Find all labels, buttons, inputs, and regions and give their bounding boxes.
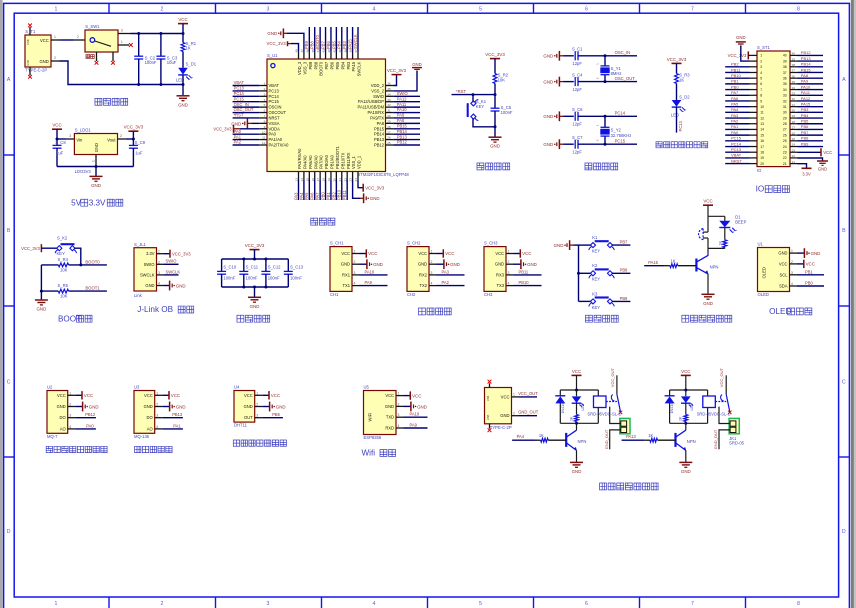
no-ERC cross SW1 unconnected pin	[129, 43, 133, 47]
mcu right pin 26 PB13	[386, 139, 394, 141]
ground symbol relay	[570, 461, 583, 463]
svg-text:PB0/A0: PB0/A0	[324, 154, 329, 169]
svg-text:S_JL1: S_JL1	[134, 242, 147, 247]
svg-text:7: 7	[691, 601, 694, 607]
junction RST-K1	[472, 93, 475, 96]
svg-text:PA9: PA9	[801, 79, 809, 84]
diode 1N4148 flyback	[669, 390, 671, 396]
svg-text:PB6: PB6	[330, 61, 335, 69]
svg-text:VCC: VCC	[385, 393, 394, 398]
wire and rotated net label PB8	[314, 27, 316, 51]
power port VCC S_CH1 pin1	[360, 253, 366, 255]
svg-text:VCC_3V3: VCC_3V3	[365, 185, 385, 190]
svg-text:VDDA: VDDA	[269, 126, 281, 131]
svg-text:PA1/A0: PA1/A0	[269, 137, 283, 142]
svg-text:PB12: PB12	[801, 50, 812, 55]
mcu bottom pin 22 PB11/RX	[346, 172, 348, 181]
svg-text:OSC_OUT: OSC_OUT	[615, 76, 636, 81]
LED in alarm	[724, 216, 726, 221]
svg-text:S_C6: S_C6	[572, 107, 583, 112]
mcu right pin 31 PA10/RX	[386, 112, 394, 114]
wire C6 to crystal	[578, 115, 637, 117]
wire and net label PA15 right	[798, 106, 824, 108]
ST1 pin 39	[790, 60, 798, 62]
wire net PA9 U5 pin4	[404, 427, 428, 429]
mcu right pin 36 VDD_2	[386, 85, 394, 87]
svg-text:PA3: PA3	[293, 192, 298, 200]
wire K2 to BOOT0	[74, 248, 81, 265]
svg-text:PA7: PA7	[315, 192, 320, 200]
relay contact dashed link	[715, 401, 726, 403]
mcu top pin 41 PB5	[335, 51, 337, 59]
svg-text:KEY: KEY	[57, 251, 66, 256]
push button K2	[579, 272, 592, 274]
svg-text:GND: GND	[527, 262, 537, 267]
svg-text:PB13: PB13	[374, 137, 385, 142]
no-ERC cross T2 top	[488, 380, 492, 384]
capacitor C4	[574, 77, 576, 86]
svg-text:PC14: PC14	[234, 91, 245, 96]
ground U4 pin2	[262, 406, 269, 408]
ST1 pin 7	[750, 89, 758, 91]
svg-text:14: 14	[760, 128, 764, 132]
svg-text:B: B	[7, 228, 11, 234]
svg-text:VCC_OUT: VCC_OUT	[719, 368, 724, 388]
ST1 pin 20	[750, 163, 758, 165]
svg-text:3.3V: 3.3V	[146, 251, 155, 256]
wire to ground filter	[254, 287, 256, 297]
wire left GND rail	[40, 265, 42, 300]
power port VCC U2 pin1	[75, 394, 81, 396]
svg-text:GND: GND	[417, 404, 427, 409]
svg-text:MQ-135: MQ-135	[134, 434, 150, 439]
svg-text:SDA: SDA	[779, 284, 788, 289]
wire net PA1 U3 pin4	[162, 428, 183, 430]
ground S_CH2 pin2	[437, 263, 444, 265]
svg-text:1: 1	[256, 391, 258, 395]
ST1 pin 15	[750, 134, 758, 136]
wire to ground LDO	[95, 167, 97, 177]
wire and net label PC15 left	[725, 140, 749, 142]
svg-text:PB13: PB13	[172, 412, 183, 417]
T2 pin 1 VCC_OUT	[512, 396, 520, 398]
svg-text:VBAT: VBAT	[234, 80, 245, 85]
ST1 pin 17	[750, 146, 758, 148]
LDO pin 3	[67, 138, 75, 140]
svg-text:PA15: PA15	[351, 61, 356, 71]
ST1 pin 38	[790, 66, 798, 68]
LED D2	[672, 100, 682, 107]
wire C1 to crystal	[578, 55, 637, 57]
svg-text:S_R5: S_R5	[58, 283, 69, 288]
svg-text:3: 3	[760, 65, 762, 69]
svg-text:GND: GND	[418, 262, 427, 267]
caption run indicator	[656, 142, 662, 148]
svg-text:PB10: PB10	[337, 189, 342, 200]
svg-text:KEY: KEY	[592, 277, 601, 282]
svg-text:1K: 1K	[671, 259, 676, 264]
svg-text:33: 33	[792, 91, 796, 95]
svg-text:NPN: NPN	[710, 264, 719, 269]
ST1 pin 10	[750, 106, 758, 108]
svg-text:VCC: VCC	[572, 369, 581, 374]
power port 3.3V ST1 pin21	[798, 164, 807, 169]
svg-text:VCC: VCC	[341, 251, 350, 256]
svg-text:VCC: VCC	[681, 369, 690, 374]
ground symbol alarm	[702, 293, 715, 295]
relay contact cross	[619, 411, 622, 414]
wire and net label PB3 right	[798, 111, 824, 113]
svg-text:TXD: TXD	[386, 415, 394, 420]
svg-text:PB14: PB14	[801, 62, 812, 67]
svg-text:NPN: NPN	[687, 439, 696, 444]
ground U2 pin2	[75, 406, 82, 408]
svg-text:NRST: NRST	[269, 115, 281, 120]
svg-text:1K: 1K	[679, 78, 684, 83]
mcu top pin 39 PB3	[346, 51, 348, 59]
svg-text:GND: GND	[57, 404, 66, 409]
svg-text:VCC: VCC	[84, 393, 93, 398]
connector JK terminal block	[620, 418, 630, 433]
svg-text:2: 2	[156, 403, 158, 407]
relay bottom rail	[670, 422, 708, 424]
svg-text:PA10: PA10	[397, 107, 407, 112]
svg-text:1K: 1K	[186, 46, 191, 51]
wire and net label PA2 left	[725, 123, 749, 125]
caption reset circuit	[477, 163, 484, 170]
base input resistor 1K relay	[512, 439, 535, 441]
svg-text:PC14: PC14	[269, 94, 280, 99]
svg-text:PB9: PB9	[801, 141, 809, 146]
ST1 pin 8	[750, 94, 758, 96]
power port VCC_3V3 jlink	[164, 253, 170, 255]
relay coil	[707, 390, 709, 396]
wire and net label PB6 right	[798, 128, 824, 130]
SW1 pin 3 output	[118, 33, 131, 35]
svg-text:PA12/USB/DP: PA12/USB/DP	[358, 99, 384, 104]
wire and net label PB7 right	[798, 134, 824, 136]
svg-text:VCC: VCC	[703, 199, 712, 204]
wire and net label VBAT	[233, 85, 260, 87]
svg-text:PB11: PB11	[519, 269, 529, 274]
svg-text:GND: GND	[144, 404, 153, 409]
svg-text:S_ST1: S_ST1	[757, 45, 770, 50]
power port VCC U5 pin1	[404, 395, 410, 397]
svg-text:*RST: *RST	[234, 113, 244, 118]
svg-text:22: 22	[792, 154, 796, 158]
svg-text:GND: GND	[244, 404, 253, 409]
alarm top rail	[708, 215, 725, 217]
svg-text:PB11: PB11	[342, 190, 347, 200]
svg-text:BEEP: BEEP	[735, 220, 746, 225]
svg-text:34: 34	[792, 86, 796, 90]
svg-text:S_C12: S_C12	[268, 265, 281, 270]
filter top rail	[222, 258, 289, 260]
svg-text:VCC_3V3: VCC_3V3	[387, 68, 407, 73]
svg-text:PC15: PC15	[615, 139, 626, 144]
ST1 pin 26	[790, 134, 798, 136]
svg-text:10: 10	[262, 130, 266, 134]
transistor NPN relay	[565, 433, 567, 447]
wire net PB8	[612, 272, 630, 274]
svg-text:PA9: PA9	[410, 423, 418, 428]
wire and net label PB9 right	[798, 146, 824, 148]
mcu left pin 3 PC14	[259, 95, 267, 97]
capacitor C5	[491, 107, 500, 109]
svg-text:PA9: PA9	[365, 280, 373, 285]
svg-text:VCC_3V3: VCC_3V3	[667, 57, 687, 62]
ground U5 pin2	[404, 405, 411, 407]
svg-text:SWCLK: SWCLK	[140, 272, 155, 277]
svg-text:PA3: PA3	[731, 113, 739, 118]
wire to capacitor C7	[564, 143, 574, 145]
svg-text:1: 1	[508, 250, 510, 254]
ST1 pin 40	[790, 54, 798, 56]
svg-text:NRST: NRST	[731, 158, 742, 163]
ground at mcu VSS_3	[287, 33, 304, 51]
wire net PA3 S_CH2 pin3	[437, 274, 465, 276]
mcu bottom pin 14 PA4/A0	[303, 172, 305, 181]
svg-text:GND: GND	[554, 243, 564, 248]
svg-text:VSS_3: VSS_3	[303, 61, 308, 74]
svg-text:S_LDO1: S_LDO1	[75, 128, 92, 133]
svg-text:GND: GND	[412, 62, 422, 67]
svg-text:4: 4	[156, 425, 158, 429]
ground S_CH1 pin2	[360, 263, 367, 265]
mcu left pin 5 OSCIN	[259, 106, 267, 108]
svg-text:C: C	[7, 380, 11, 386]
wire net *RST	[452, 94, 496, 96]
svg-text:VCC: VCC	[501, 394, 510, 399]
wire and net label PA11 right	[798, 94, 824, 96]
SW1 bottom pin b	[112, 52, 114, 61]
ruler dividers left and right	[4, 154, 15, 156]
svg-text:32: 32	[783, 99, 787, 103]
svg-text:1: 1	[760, 54, 762, 58]
wire and net label PA11	[393, 106, 420, 108]
ground symbol filter	[248, 296, 261, 298]
svg-text:PC15: PC15	[269, 99, 280, 104]
junction VCC rail	[182, 32, 185, 35]
svg-text:PB5: PB5	[335, 61, 340, 69]
svg-text:PA5: PA5	[731, 101, 739, 106]
svg-text:KEY: KEY	[476, 104, 485, 109]
wire and net label PA12 right	[798, 100, 824, 102]
ST1 pin 1	[750, 54, 758, 56]
svg-text:K1: K1	[592, 235, 598, 240]
svg-text:2: 2	[161, 601, 164, 607]
push button K1	[467, 103, 469, 117]
svg-text:16: 16	[760, 139, 764, 143]
wire and net label PC13 left	[725, 151, 749, 153]
svg-text:LED: LED	[581, 403, 585, 410]
svg-text:PA3/RX/A0: PA3/RX/A0	[297, 148, 302, 169]
svg-text:RX1: RX1	[342, 272, 351, 277]
svg-text:GND: GND	[267, 31, 277, 36]
svg-text:26: 26	[387, 136, 391, 140]
wire C7 to crystal	[578, 143, 637, 145]
svg-text:TYPE-C-2P: TYPE-C-2P	[25, 68, 47, 73]
svg-text:10K: 10K	[60, 294, 68, 299]
svg-text:PA0: PA0	[731, 130, 739, 135]
svg-text:1: 1	[158, 250, 160, 254]
svg-text:2: 2	[158, 260, 160, 264]
svg-text:RX2: RX2	[419, 272, 428, 277]
svg-text:29: 29	[387, 119, 391, 123]
wire net PB1 U1 pin3	[797, 274, 824, 276]
svg-text:PA9/TX: PA9/TX	[370, 115, 384, 120]
svg-text:40: 40	[783, 54, 787, 58]
wire and net label PA1	[233, 139, 260, 141]
svg-text:12: 12	[262, 141, 266, 145]
junction R5 rail	[40, 290, 43, 293]
svg-text:PA2: PA2	[234, 140, 242, 145]
svg-text:34: 34	[387, 92, 391, 96]
wire BOOT0	[69, 264, 107, 266]
diode 1N4148 flyback	[559, 390, 561, 396]
svg-text:SCL: SCL	[780, 272, 789, 277]
LDO GND pin 1	[95, 155, 97, 167]
switch SW1 body	[85, 30, 118, 52]
svg-text:OSCOUT: OSCOUT	[269, 110, 287, 115]
window edge left grey strip	[0, 0, 3, 608]
svg-text:39: 39	[783, 59, 787, 63]
svg-text:VCC_3V3: VCC_3V3	[266, 41, 286, 46]
wire and net label PB15	[393, 128, 420, 130]
svg-text:PB4: PB4	[337, 41, 342, 49]
svg-text:4: 4	[431, 282, 433, 286]
T2 top pin	[489, 383, 491, 387]
svg-text:PA10/RX: PA10/RX	[367, 110, 384, 115]
keys left rail	[578, 245, 580, 301]
svg-text:VCC_3V3: VCC_3V3	[124, 125, 144, 130]
ST1 pin 25	[790, 140, 798, 142]
connector JK terminal block	[729, 418, 739, 433]
svg-text:1: 1	[513, 393, 515, 397]
svg-text:S_C10: S_C10	[223, 265, 236, 270]
svg-text:GND: GND	[818, 167, 827, 172]
svg-text:OUT: OUT	[244, 415, 253, 420]
wire and net label PA6 left	[725, 100, 749, 102]
ST1 pin 28	[790, 123, 798, 125]
svg-text:S_D2: S_D2	[679, 95, 690, 100]
svg-text:6: 6	[760, 82, 762, 86]
svg-text:3: 3	[256, 414, 258, 418]
svg-text:STM32F103C8T6_LQFP48: STM32F103C8T6_LQFP48	[358, 172, 410, 177]
wire to capacitor C6	[564, 115, 574, 117]
svg-text:PA9: PA9	[397, 113, 405, 118]
svg-text:SWCLK: SWCLK	[357, 62, 362, 77]
caption power circuit	[95, 98, 102, 105]
svg-text:BOOT0: BOOT0	[85, 259, 100, 264]
wire and net label PB12	[393, 144, 420, 146]
svg-text:12pF: 12pF	[572, 149, 582, 154]
resistor R4	[58, 263, 68, 267]
power port VCC U4 pin1	[262, 394, 268, 396]
svg-text:1: 1	[121, 40, 123, 44]
alarm bottom rail	[708, 247, 725, 249]
svg-text:PB2: PB2	[331, 192, 336, 200]
svg-text:PB1: PB1	[805, 269, 813, 274]
svg-text:7: 7	[264, 114, 266, 118]
svg-text:2: 2	[54, 56, 56, 60]
capacitor C2	[138, 34, 140, 57]
svg-text:100nF: 100nF	[246, 275, 258, 280]
ST1 pin 30	[790, 111, 798, 113]
svg-text:PA8: PA8	[397, 118, 405, 123]
svg-text:PB2: PB2	[731, 62, 739, 67]
mcu left pin 1 VBAT	[259, 85, 267, 87]
svg-text:2: 2	[256, 403, 258, 407]
svg-text:19: 19	[760, 156, 764, 160]
wire and net label PC15	[233, 101, 260, 103]
module U5 body	[364, 391, 397, 435]
svg-text:GND: GND	[736, 35, 746, 40]
window edge right grey strip	[851, 0, 856, 608]
svg-text:VCC: VCC	[412, 393, 421, 398]
mcu top pin 45 PB8	[314, 51, 316, 59]
LED D1	[178, 68, 188, 75]
wire and rotated net label PB11	[346, 180, 348, 200]
svg-text:D: D	[842, 529, 846, 535]
svg-text:1K: 1K	[648, 433, 653, 438]
svg-text:PA8: PA8	[801, 73, 809, 78]
svg-text:OSC_IN: OSC_IN	[615, 50, 631, 55]
svg-text:U1: U1	[758, 242, 764, 247]
ground U3 pin2	[162, 406, 169, 408]
wire net PB10 S_CH3 pin4	[514, 285, 542, 287]
ground at mcu VSS_2	[393, 71, 417, 91]
wire and rotated net label PA6	[314, 180, 316, 200]
wire net PA9 S_CH1 pin4	[360, 285, 388, 287]
wire and rotated net label PB6	[330, 27, 332, 51]
svg-text:27: 27	[783, 128, 787, 132]
ST1 pin 34	[790, 89, 798, 91]
ST1 pin 24	[790, 146, 798, 148]
svg-text:PA1: PA1	[173, 423, 181, 428]
svg-text:33: 33	[783, 94, 787, 98]
svg-text:31: 31	[783, 105, 787, 109]
svg-text:TX2: TX2	[419, 283, 427, 288]
mcu top pin 38 PA15	[352, 51, 354, 59]
wire net PB11 S_CH3 pin3	[514, 274, 542, 276]
svg-text:VBAT: VBAT	[269, 83, 280, 88]
ground symbol power circuit	[177, 95, 190, 97]
relay top rail	[670, 389, 708, 391]
svg-text:PA8: PA8	[377, 121, 385, 126]
svg-text:OLED: OLED	[762, 267, 767, 278]
svg-text:PB8: PB8	[313, 61, 318, 69]
svg-text:GND_OUT: GND_OUT	[518, 410, 539, 415]
wire GND rail	[60, 61, 184, 85]
svg-text:4: 4	[69, 425, 71, 429]
ST1 pin 19	[750, 157, 758, 159]
svg-text:VCC: VCC	[445, 251, 454, 256]
svg-text:3: 3	[267, 601, 270, 607]
svg-text:1: 1	[54, 35, 56, 39]
svg-text:PA15: PA15	[801, 101, 811, 106]
svg-text:PB6: PB6	[326, 41, 331, 49]
wire and net label PC14 left	[725, 146, 749, 148]
no-ERC cross T2 bottom	[488, 428, 492, 432]
connector T1 TYPE-C-2P body	[25, 35, 51, 67]
wire VCC rail from switch	[131, 33, 184, 35]
svg-text:RXD: RXD	[385, 426, 394, 431]
svg-text:3.3V: 3.3V	[89, 198, 106, 207]
svg-text:GND: GND	[176, 283, 186, 288]
svg-text:S_K2: S_K2	[57, 236, 68, 241]
wire emitter to ground relay	[576, 450, 578, 462]
